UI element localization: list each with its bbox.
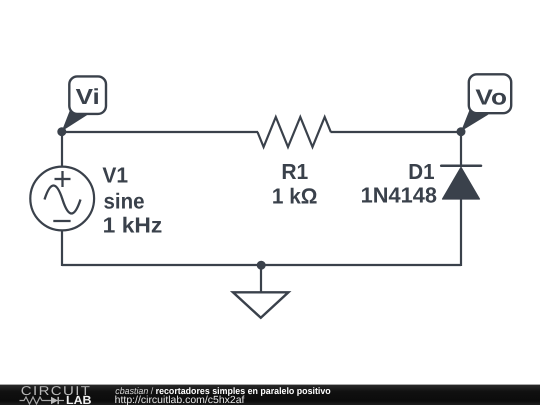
svg-text:Vo: Vo: [475, 85, 507, 110]
svg-text:http://circuitlab.com/c5hx2af: http://circuitlab.com/c5hx2af: [115, 395, 245, 405]
resistor R1: [258, 117, 331, 147]
node label Vi flag: [62, 76, 106, 131]
svg-text:1N4148: 1N4148: [361, 183, 437, 208]
footer text: url: [115, 395, 245, 405]
diode D1: [441, 166, 481, 199]
svg-text:Vi: Vi: [76, 84, 100, 109]
ground: [233, 265, 288, 318]
wire bottom rail: [62, 264, 461, 266]
node label Vo flag: [461, 74, 511, 131]
footer text: author and title: [115, 386, 331, 396]
svg-text:D1: D1: [408, 159, 434, 184]
wire: V1 bottom to bottom rail: [61, 231, 63, 266]
wire: diode anode down to bottom rail: [460, 198, 462, 266]
node Vo junction dot: [457, 127, 466, 136]
svg-text:1 kHz: 1 kHz: [103, 213, 163, 238]
footer bar: [0, 385, 540, 405]
value label V1 sine 1 kHz: [102, 163, 162, 238]
svg-text:1 kΩ: 1 kΩ: [272, 184, 318, 209]
node ground junction dot: [257, 261, 266, 270]
svg-text:LAB: LAB: [66, 393, 92, 405]
svg-text:R1: R1: [281, 159, 308, 184]
svg-text:V1: V1: [102, 163, 128, 188]
wire: Vo node down to diode cathode bar: [460, 132, 462, 166]
CircuitLab logo: [20, 383, 92, 405]
wire top-left: Vi node to resistor: [62, 131, 258, 133]
voltage source V1: [30, 167, 94, 231]
value label D1 1N4148: [361, 159, 437, 208]
svg-text:sine: sine: [104, 189, 145, 214]
value label R1 1 kOhm: [272, 159, 318, 209]
node Vi junction dot: [57, 127, 66, 136]
wire: Vi node down to V1 top: [61, 132, 63, 166]
wire top-right: resistor to Vo node: [331, 131, 462, 133]
